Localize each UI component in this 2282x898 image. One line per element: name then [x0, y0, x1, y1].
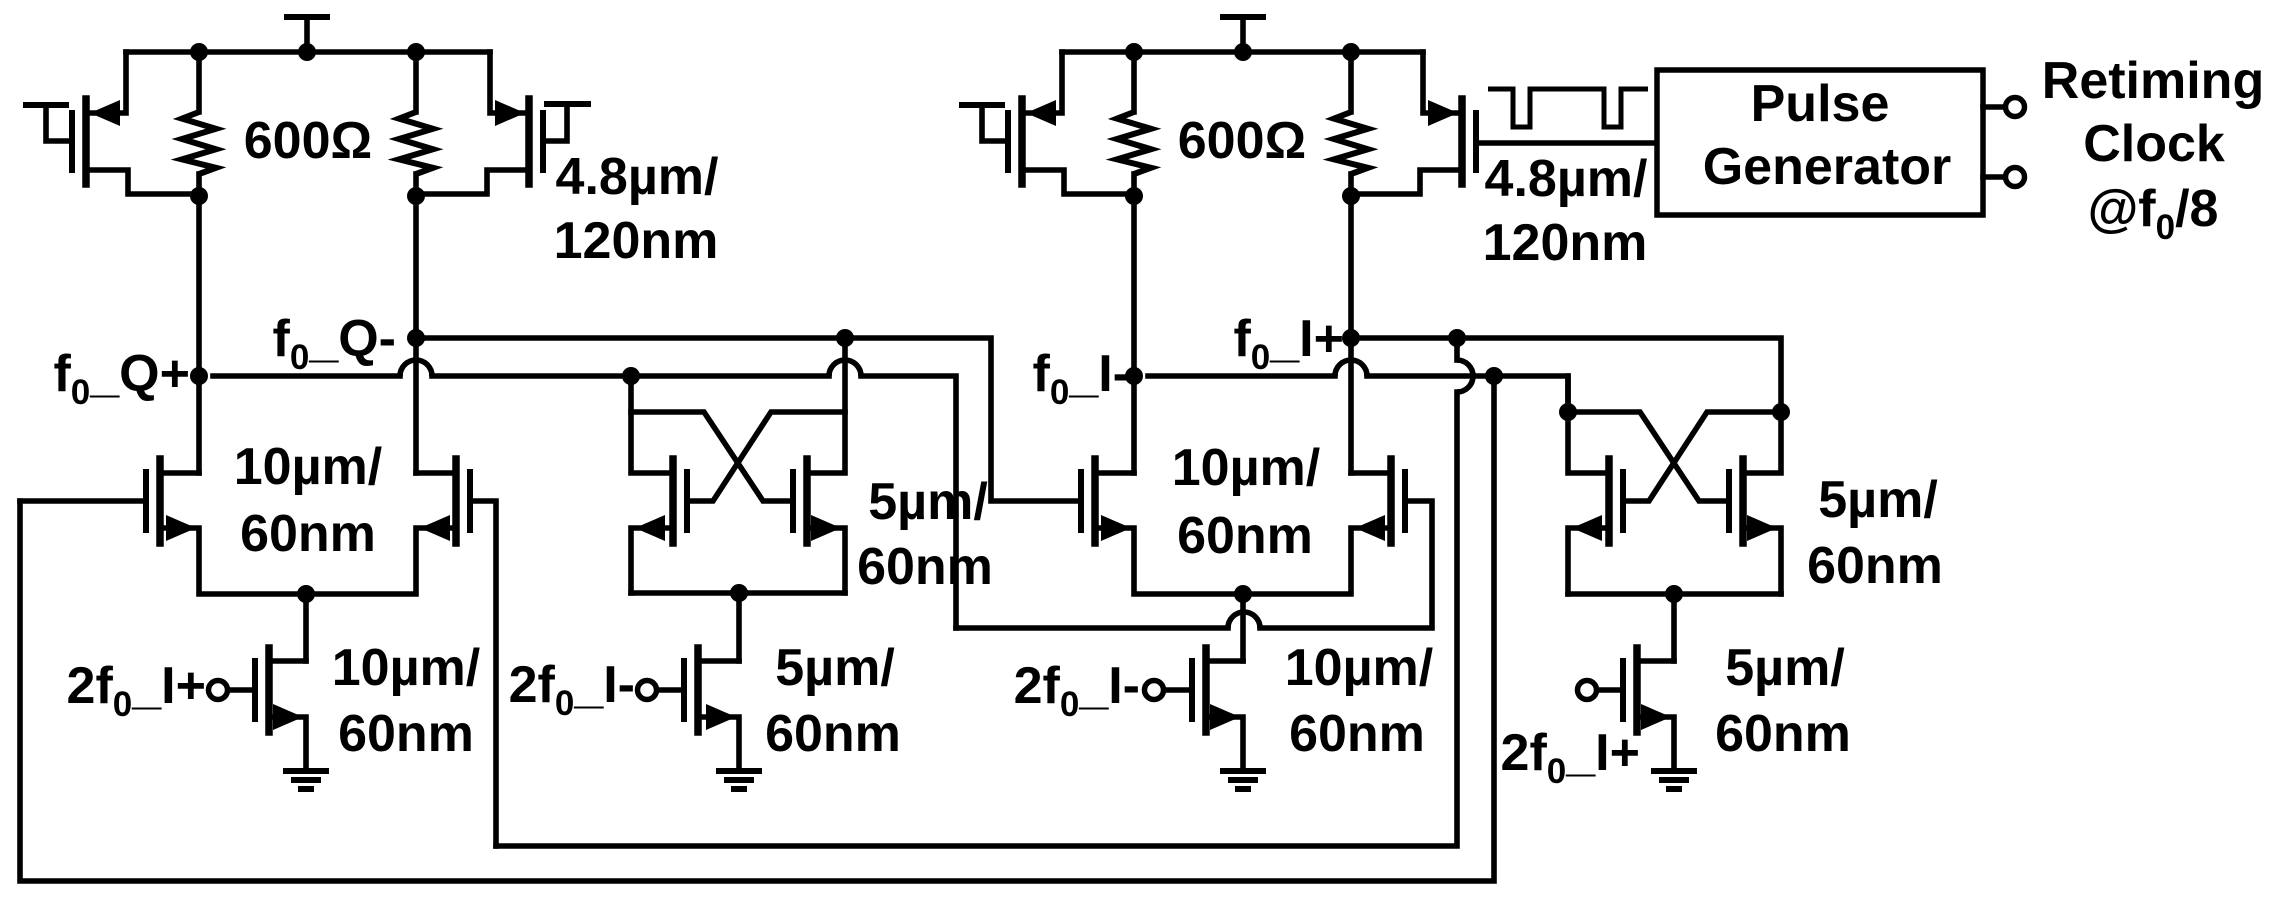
wire gate M4 to feedback: [473, 501, 496, 846]
size label 5um/60nm (cross pair 1): [857, 473, 993, 596]
wire VDD rail (latch 1): [126, 49, 490, 55]
svg-text:Clock: Clock: [2083, 115, 2225, 173]
junction dot f0_Q+: [190, 367, 208, 385]
input label 2f0_I-: [509, 656, 635, 723]
svg-text:2f0_I+: 2f0_I+: [67, 657, 206, 724]
junction dot node f0_I+ top: [1342, 187, 1360, 205]
transistor M7 cross-coupled NMOS (right): [793, 338, 845, 593]
junction dot rail-R1: [190, 43, 208, 61]
node label f0_Q+: [53, 345, 190, 412]
svg-text:60nm: 60nm: [765, 705, 901, 763]
svg-text:2f0_I+: 2f0_I+: [1501, 724, 1640, 791]
transistor M1 PMOS switch (latch 1 left): [72, 52, 196, 194]
svg-text:10µm/: 10µm/: [332, 639, 480, 697]
transistor M10 PMOS switch (latch 2 right): [1354, 52, 1476, 194]
terminal output 2: [2006, 168, 2025, 187]
junction dot f0_I-: [1125, 367, 1143, 385]
svg-text:10µm/: 10µm/: [1285, 639, 1433, 697]
wire VDD rail (latch 2): [1062, 49, 1423, 55]
svg-text:120nm: 120nm: [1483, 214, 1648, 272]
node label f0_Q-: [273, 310, 396, 377]
wire f0_Q- vertical: [413, 196, 419, 473]
transistor M14 cross-coupled NMOS (left): [1568, 376, 1623, 594]
junction dot f0_Q-: [407, 329, 425, 347]
resistor R4 600&#937; (latch 2 right): [1334, 52, 1368, 196]
svg-text:10µm/: 10µm/: [234, 438, 382, 496]
svg-text:4.8µm/: 4.8µm/: [1485, 150, 1648, 208]
input label 2f0_I- (latch 2): [1014, 657, 1140, 724]
svg-text:f0_I+: f0_I+: [1233, 310, 1344, 377]
ground (latch 2 tail): [1223, 771, 1263, 789]
wire cross-coupling M7 drain to M6 gate: [690, 412, 845, 501]
size label 5um/60nm (M16): [1715, 639, 1851, 763]
transistor M16 tail NMOS (cross pair 2): [1623, 594, 1674, 768]
transistor M11 NMOS diff pair (latch 2 left): [1081, 459, 1243, 594]
ground (cross pair 2 tail): [1654, 771, 1694, 789]
junction dot f0_I+: [1342, 329, 1360, 347]
transistor M8 tail NMOS (cross pair 1): [684, 593, 739, 768]
junction dot f0_Q- to cross pair: [836, 329, 854, 347]
transistor M6 cross-coupled NMOS (left): [631, 376, 687, 593]
junction dot tail node (latch 1): [297, 585, 315, 603]
svg-text:600Ω: 600Ω: [244, 112, 372, 170]
size label 10um/60nm (M5): [332, 639, 480, 763]
junction dot tail node (cross pair 2): [1665, 585, 1683, 603]
svg-text:60nm: 60nm: [857, 538, 993, 596]
junction dot f0_Q+ to cross pair: [622, 367, 640, 385]
wire gate M16: [1597, 687, 1620, 693]
resistor R1 600&#937; (latch 1 left): [182, 52, 216, 196]
junction dot node f0_I- top: [1125, 187, 1143, 205]
ground (latch 1 tail): [286, 771, 326, 789]
wire output 2 of pulse generator: [1983, 174, 2004, 180]
wire gate M8: [656, 687, 681, 693]
svg-text:60nm: 60nm: [1807, 537, 1943, 595]
wire output 1 of pulse generator: [1983, 104, 2004, 110]
wire f0_I- vertical: [1131, 196, 1137, 473]
bias stub at M2 gate: [545, 104, 588, 141]
resistor R3 600&#937; (latch 2 left): [1117, 52, 1151, 196]
svg-text:60nm: 60nm: [338, 705, 474, 763]
junction dot rail-R2: [407, 43, 425, 61]
wire feedback f0_I- to M3 gate: [20, 376, 1494, 881]
junction dot cross pair 2 left: [1559, 403, 1577, 421]
size label 10um/60nm (M13): [1285, 639, 1433, 763]
size label 4.8um/120nm (M10): [1483, 150, 1648, 272]
wire f0_I+ net: [1351, 338, 1781, 412]
transistor M12 NMOS diff pair (latch 2 right): [1243, 459, 1405, 594]
terminal 2f0_I- (cross pair 1 tail gate): [638, 681, 657, 700]
value label 600&#937; (latch 1): [244, 112, 372, 170]
bias stub at M9 gate: [962, 105, 1006, 141]
size label 5um/60nm (M8): [765, 639, 901, 763]
junction dot VDD rail (1243,52): [1234, 43, 1252, 61]
size label 10um/60nm (latch 1 pair): [234, 438, 382, 563]
transistor M3 NMOS diff pair (latch 1 left): [146, 459, 306, 594]
wire gate M13: [1164, 687, 1189, 693]
label Pulse Generator: [1703, 75, 1952, 196]
transistor M9 PMOS switch (latch 2 left): [1008, 52, 1131, 194]
transistor M4 NMOS diff pair (latch 1 right): [306, 459, 470, 594]
svg-text:f0_I-: f0_I-: [1033, 345, 1130, 412]
label Retiming Clock @f0/8: [2042, 52, 2264, 247]
resistor R2 600&#937; (latch 1 right): [399, 52, 433, 196]
wire feedback f0_I+ to M4 gate: [496, 338, 1473, 846]
junction dot rail-R3: [1125, 43, 1143, 61]
waveform pulse train symbol: [1488, 89, 1648, 127]
size label 10um/60nm (latch 2 pair): [1172, 439, 1320, 565]
svg-text:@f0/8: @f0/8: [2088, 180, 2219, 247]
svg-text:Retiming: Retiming: [2042, 52, 2264, 110]
svg-text:5µm/: 5µm/: [1725, 639, 1845, 697]
wire f0_I+ vertical: [1348, 196, 1354, 473]
svg-text:60nm: 60nm: [1289, 705, 1425, 763]
svg-text:Generator: Generator: [1703, 138, 1952, 196]
node label f0_I+: [1233, 310, 1344, 377]
wire gate M5: [227, 687, 252, 693]
node label f0_I-: [1033, 345, 1130, 412]
svg-text:600Ω: 600Ω: [1178, 112, 1306, 170]
value label 600&#937; (latch 2): [1178, 112, 1306, 170]
terminal output 1: [2006, 98, 2025, 117]
svg-text:5µm/: 5µm/: [775, 639, 895, 697]
wire f0_Q+ vertical: [196, 196, 202, 473]
junction dot VDD rail (307,52): [298, 43, 316, 61]
svg-text:Pulse: Pulse: [1751, 75, 1890, 133]
junction dot tail node (latch 2): [1234, 585, 1252, 603]
wire source rail (cross pair 2): [1568, 591, 1781, 597]
size label 5um/60nm (cross pair 2): [1807, 471, 1943, 595]
wire f0_I- net: [1148, 360, 1568, 412]
wire f0_Q+ net: [213, 360, 1432, 628]
wire source rail (cross pair 1): [631, 590, 845, 596]
junction dot node f0_Q- top: [407, 187, 425, 205]
input label 2f0_I+: [67, 657, 206, 724]
junction dot node f0_Q+ top: [190, 187, 208, 205]
terminal 2f0_I+ (latch 1 tail gate): [209, 681, 228, 700]
transistor M5 tail NMOS (latch 1): [255, 594, 306, 768]
svg-text:5µm/: 5µm/: [1818, 471, 1938, 529]
svg-text:120nm: 120nm: [554, 212, 719, 270]
svg-text:4.8µm/: 4.8µm/: [556, 148, 719, 206]
wire cross-coupling M6 drain to M7 gate: [631, 412, 790, 501]
junction dot cross pair 2 right: [1772, 403, 1790, 421]
wire cross-coupling M14 drain to M15 gate: [1568, 412, 1726, 501]
svg-text:60nm: 60nm: [1715, 705, 1851, 763]
svg-text:60nm: 60nm: [240, 505, 376, 563]
ground (cross pair 1 tail): [719, 771, 759, 789]
input label 2f0_I+ (cross pair 2): [1501, 724, 1640, 791]
junction dot f0_I- to feedback: [1485, 367, 1503, 385]
wire f0_Q- net: [416, 338, 1077, 501]
svg-text:10µm/: 10µm/: [1172, 439, 1320, 497]
transistor M15 cross-coupled NMOS (right): [1729, 412, 1781, 594]
size label 4.8um/120nm (M2): [554, 148, 719, 270]
svg-text:5µm/: 5µm/: [868, 473, 988, 531]
bias stub at M1 gate: [26, 105, 70, 141]
terminal 2f0_I+ (cross pair 2 tail gate): [1578, 681, 1597, 700]
junction dot rail-R4: [1342, 43, 1360, 61]
terminal 2f0_I- (latch 2 tail gate): [1145, 681, 1164, 700]
junction dot tail node (cross pair 1): [730, 584, 748, 602]
wire gate M3 from feedback: [20, 498, 143, 504]
transistor M13 tail NMOS (latch 2): [1192, 594, 1243, 768]
svg-text:60nm: 60nm: [1177, 507, 1313, 565]
transistor M2 PMOS switch (latch 1 right): [419, 52, 543, 194]
wire cross-coupling M15 drain to M14 gate: [1626, 412, 1781, 501]
wire M10 gate to pulse generator: [1478, 140, 1657, 146]
power VDD symbol (latch 1): [287, 17, 327, 52]
junction dot f0_I+ to feedback: [1448, 329, 1466, 347]
power VDD symbol (latch 2): [1223, 17, 1263, 52]
block Pulse Generator: [1657, 70, 1983, 215]
